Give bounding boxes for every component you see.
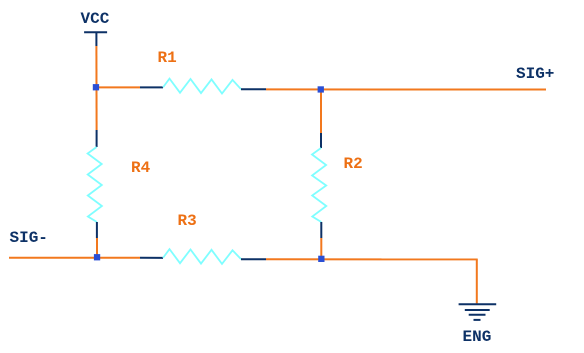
node D junction	[318, 256, 324, 262]
node C junction	[94, 254, 100, 260]
wire R2 bottom to node D	[320, 238, 322, 259]
label R4	[131, 160, 150, 176]
resistor R1	[140, 79, 266, 94]
net label SIG+	[516, 66, 554, 82]
net label SIG-	[10, 230, 48, 246]
wire top rail left segment	[97, 86, 141, 88]
node B junction	[318, 86, 324, 92]
resistor R4	[88, 130, 102, 238]
wire bottom rail right segment	[266, 258, 478, 260]
power VCC symbol	[84, 32, 107, 46]
wire node B down to R2	[320, 89, 322, 133]
wire ground drop	[476, 259, 478, 303]
ground ENG symbol	[459, 304, 497, 320]
wire bottom rail from SIG-	[9, 257, 140, 259]
resistor R2	[312, 133, 326, 238]
node A junction	[93, 84, 99, 90]
wire top rail right segment to SIG+	[266, 88, 546, 90]
label R2	[344, 156, 363, 172]
label R3	[178, 213, 197, 229]
net label ENG	[463, 329, 492, 345]
resistor R3	[140, 249, 266, 264]
net label VCC	[81, 11, 110, 27]
wire R4 bottom to node C	[96, 238, 98, 258]
label R1	[158, 50, 177, 66]
wire VCC drop to node A	[95, 46, 97, 130]
